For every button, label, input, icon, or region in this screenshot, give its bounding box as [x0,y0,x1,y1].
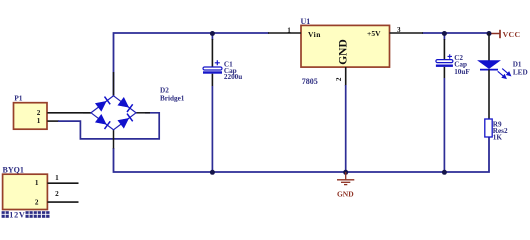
pin 1 stub [268,32,301,34]
svg-text:GND: GND [337,190,354,199]
svg-text:1: 1 [55,174,59,182]
svg-text:BYQ1: BYQ1 [3,165,24,174]
connector P1 [14,94,92,130]
power port VCC [490,30,521,39]
svg-text:LED: LED [513,69,528,77]
junction VCC branch [487,31,492,36]
junction C1 top [210,31,215,36]
diode top-left [96,101,107,111]
pin bottom to resistor [488,70,490,119]
pin bottom / wire to ground rail [443,67,445,78]
svg-text:Vin: Vin [308,30,321,39]
bridge rectifier D2 [83,72,185,149]
svg-text:2: 2 [55,190,59,198]
svg-text:1: 1 [35,179,39,187]
polarity plus sign [215,60,220,65]
svg-text:D1: D1 [513,61,522,69]
cathode bar [480,69,498,71]
transformer BYQ1 [3,165,79,209]
value label transformer chinese 双12V变压器 [2,211,50,220]
svg-text:GND: GND [338,39,350,65]
resistor R9 [485,119,508,142]
wire ground rail [114,137,490,172]
junction GND rail [343,170,348,175]
svg-text:10uF: 10uF [454,68,470,76]
pin top [443,33,445,40]
wire U1 GND pin down to ground rail [345,85,347,172]
diode top-right [118,98,129,108]
regulator U1 7805 [268,17,423,86]
junction C2 bottom [442,170,447,175]
svg-text:Bridge1: Bridge1 [160,95,185,103]
svg-text:7805: 7805 [302,77,318,86]
svg-text:2: 2 [37,109,41,117]
pin right [136,112,150,114]
wire U1 output rail (+5V to VCC) [422,32,490,34]
svg-text:VCC: VCC [503,30,521,39]
pin 1 stub [47,120,59,122]
svg-text:3: 3 [397,26,401,34]
top plate [203,67,222,70]
triangle [478,61,500,69]
pin bottom / wire to ground rail [211,74,213,86]
junction C2 top [442,31,447,36]
pin 2 stub [47,112,91,114]
pin top [211,33,213,40]
pin 2 stub [345,67,347,86]
pin 3 stub [390,32,424,34]
pin 2 stub [47,201,78,203]
diode bottom-left [96,115,107,125]
LED D1 [478,33,528,119]
svg-text:P1: P1 [14,94,23,103]
wire top rail (bridge + output to U1 Vin) [114,33,270,96]
bottom plate [436,65,453,67]
pin left [83,112,91,114]
svg-text:D2: D2 [160,87,169,95]
svg-text:2200u: 2200u [224,73,242,81]
svg-text:2: 2 [335,77,343,81]
svg-text:1: 1 [287,26,291,34]
pin top [488,33,490,61]
svg-text:1K: 1K [493,134,503,142]
wire P1 pin1 to bridge right corner (loop under bridge) [58,113,159,139]
diamond outline [91,96,136,130]
ground symbol [337,172,354,185]
diode bottom-right [118,118,129,128]
svg-text:+5V: +5V [367,29,381,38]
pin top [113,72,115,96]
pin 1 stub [47,182,78,184]
light emission arrows [498,69,511,79]
capacitor C2 [436,33,470,172]
svg-text:12V: 12V [9,211,25,220]
top plate [436,60,453,63]
bottom plate [203,71,222,73]
pin bottom [113,130,115,149]
junction C1 bottom [210,170,215,175]
svg-text:2: 2 [35,198,39,206]
capacitor C1 [203,33,242,172]
polarity plus sign [448,54,453,59]
svg-text:1: 1 [37,117,41,125]
